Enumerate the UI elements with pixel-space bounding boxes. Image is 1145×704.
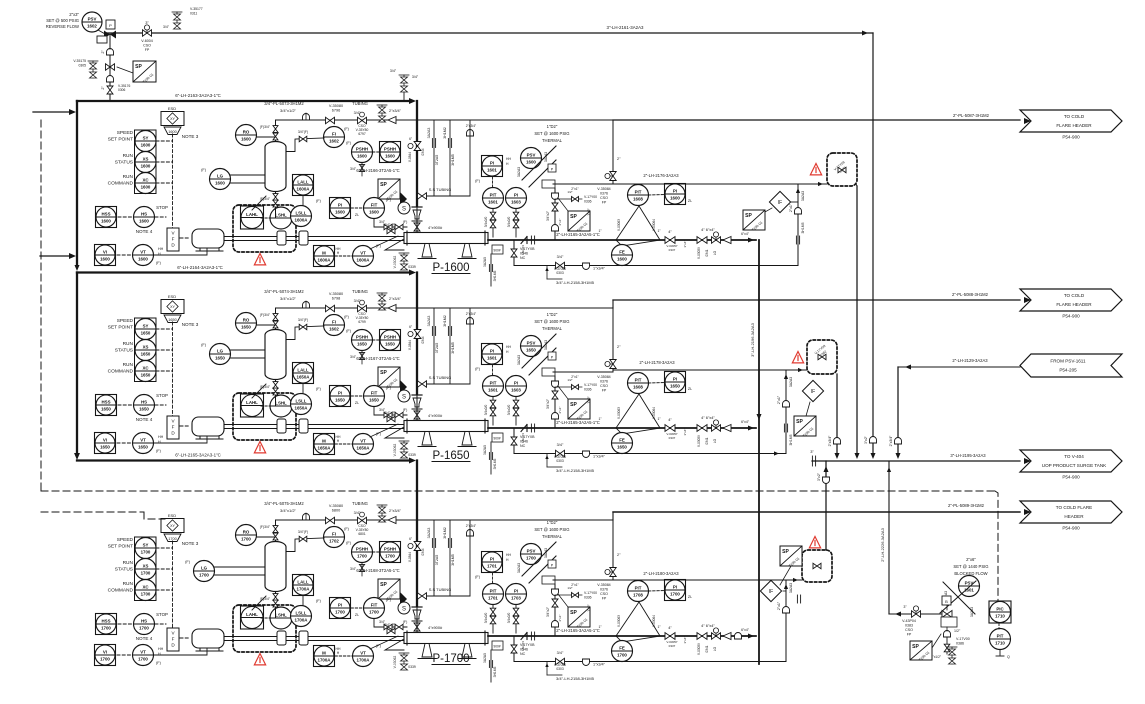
speed pickup SP (568, 399, 590, 421)
svg-text:1650: 1650 (139, 406, 149, 411)
svg-text:STATUS: STATUS (115, 348, 133, 354)
pressure indicator PI 1600 (330, 198, 351, 219)
svg-text:COMMAND: COMMAND (108, 369, 134, 375)
svg-text:NC: NC (520, 652, 526, 656)
svg-text:ZL: ZL (688, 199, 692, 203)
svg-text:ZL: ZL (688, 387, 692, 391)
svg-text:3A2A3: 3A2A3 (517, 355, 521, 365)
svg-text:(F): (F) (403, 220, 408, 224)
vent cluster top (172, 12, 182, 29)
svg-text:HEADER: HEADER (1064, 514, 1084, 519)
svg-text:XY: XY (170, 117, 175, 121)
svg-text:PIT: PIT (997, 633, 1004, 638)
svg-text:SET POINT: SET POINT (108, 325, 133, 331)
svg-text:1700: 1700 (100, 656, 110, 661)
svg-text:2"x1": 2"x1" (789, 203, 793, 212)
pump legs (422, 432, 432, 446)
train 2 spillback riser (836, 374, 838, 456)
svg-text:2"x3/4": 2"x3/4" (389, 109, 402, 113)
svg-text:IF: IF (778, 200, 782, 206)
flow transmitter FIT 1700 (364, 598, 385, 619)
svg-text:PSV: PSV (527, 548, 536, 553)
svg-text:P-1600: P-1600 (432, 262, 469, 274)
svg-text:3T2A5: 3T2A5 (435, 155, 439, 166)
svg-text:FE: FE (619, 437, 625, 442)
svg-text:1601: 1601 (487, 355, 497, 360)
svg-text:1/2x3/4: 1/2x3/4 (521, 433, 525, 443)
motor for pump P-1600 (192, 229, 224, 248)
SS tubing loop (433, 521, 435, 596)
FIT tap line (374, 219, 407, 228)
svg-text:HS: HS (141, 399, 147, 404)
black flag (400, 192, 407, 206)
discharge pipe 2 inch (488, 635, 756, 637)
controller SY/XS/XC 1700 stack (135, 537, 157, 601)
level gauge LG 1700 (194, 561, 215, 582)
svg-text:F: F (172, 425, 175, 430)
restriction orifice RO 1700 (236, 525, 257, 546)
pump train P-1650 control/instrument column (95, 289, 489, 458)
svg-text:2"-LH-2180-3A2A3: 2"-LH-2180-3A2A3 (643, 571, 679, 576)
instrument air dashed drop (40, 120, 42, 491)
svg-text:2"x1": 2"x1" (777, 601, 781, 610)
svg-text:6"-LH-2167-3T2A5-1"C: 6"-LH-2167-3T2A5-1"C (356, 356, 399, 361)
svg-text:3H1M5: 3H1M5 (801, 222, 805, 233)
reducer 2x3/4 (388, 517, 396, 524)
svg-text:6"-LH-2165-3A2A3-1"C: 6"-LH-2165-3A2A3-1"C (175, 453, 221, 458)
motor for pump P-1650 (192, 417, 224, 436)
pressure indicator PI 1603 (506, 376, 527, 397)
svg-text:3/4"-LH-2158-3H1M5: 3/4"-LH-2158-3H1M5 (556, 676, 595, 681)
svg-text:0303: 0303 (556, 459, 564, 463)
svg-text:V-03063: V-03063 (617, 407, 621, 419)
coupling guards (277, 631, 286, 645)
svg-text:6797: 6797 (358, 132, 366, 136)
VFD drive P-1700 (167, 628, 179, 651)
coupling guards (277, 419, 286, 433)
train 2 IF interlock (802, 380, 823, 401)
svg-text:SP: SP (796, 419, 803, 425)
vent valve cluster (377, 293, 387, 310)
svg-text:TO V-404: TO V-404 (1064, 454, 1084, 459)
svg-text:V-03064: V-03064 (652, 615, 656, 627)
tubing valve cso (358, 305, 367, 311)
svg-text:LALL: LALL (297, 579, 309, 584)
svg-text:3/4"-PL-5074-3H1M2: 3/4"-PL-5074-3H1M2 (264, 289, 304, 294)
svg-text:P54-205: P54-205 (1059, 368, 1077, 373)
reducer 2x3/4 (388, 305, 396, 312)
svg-text:3/4" (F): 3/4" (F) (384, 223, 396, 227)
svg-text:1650: 1650 (101, 406, 111, 411)
pressure controller PIC 1710 (989, 601, 1011, 623)
svg-text:4": 4" (668, 417, 672, 422)
flare riser valve V-35084 (612, 120, 614, 184)
svg-text:3/4": 3/4" (390, 69, 397, 73)
tubing valve cso (358, 117, 367, 123)
thermal relief line (553, 579, 613, 581)
tubing check valve (303, 514, 310, 521)
top flare line elbow down (862, 30, 868, 35)
svg-text:V-43P04: V-43P04 (902, 619, 916, 623)
svg-text:1600: 1600 (335, 209, 345, 214)
level gauge LG 1600 (210, 169, 231, 190)
PSV-1602 angle valve (104, 31, 116, 39)
monitor M 1600A (314, 246, 335, 267)
PSV inlet drop (554, 376, 556, 428)
svg-text:3/4": 3/4" (412, 75, 419, 79)
svg-text:VT: VT (360, 250, 366, 255)
svg-text:1650: 1650 (670, 383, 680, 388)
svg-text:PIT: PIT (490, 380, 497, 385)
VFD drive P-1600 (167, 228, 179, 251)
svg-text:LG: LG (201, 565, 208, 570)
svg-text:(F): (F) (156, 661, 162, 665)
black flag (400, 380, 407, 394)
svg-text:2"x3/4": 2"x3/4" (466, 524, 477, 528)
svg-text:0337: 0337 (669, 436, 676, 440)
svg-text:V-03063: V-03063 (617, 615, 621, 627)
svg-text:PI: PI (490, 348, 494, 353)
svg-text:1"x3/4": 1"x3/4" (593, 455, 606, 459)
tubing valve cso (358, 517, 367, 523)
svg-text:P-1700: P-1700 (432, 653, 469, 665)
svg-text:(F): (F) (156, 449, 162, 453)
svg-text:XC: XC (142, 365, 149, 370)
svg-text:1708: 1708 (633, 592, 643, 597)
flow transmitter PIT 1608 (628, 373, 649, 394)
discharge pipe 2 inch (488, 239, 756, 241)
svg-text:1700A: 1700A (297, 586, 311, 591)
svg-text:1650: 1650 (357, 341, 367, 346)
svg-text:V-03059: V-03059 (697, 643, 701, 655)
svg-text:3"x4": 3"x4" (683, 637, 687, 644)
pressure gauge PI 1601 (482, 344, 503, 365)
svg-text:1700: 1700 (168, 537, 176, 541)
svg-text:1"x3/4": 1"x3/4" (593, 267, 606, 271)
svg-text:VT: VT (360, 650, 366, 655)
pump casing P-1600 (404, 233, 488, 244)
svg-text:3/4x0/0: 3/4x0/0 (507, 405, 511, 416)
svg-text:NOTE 3: NOTE 3 (182, 541, 199, 546)
svg-text:1"D2": 1"D2" (547, 312, 558, 317)
svg-text:VT: VT (360, 438, 366, 443)
svg-text:PI: PI (514, 380, 518, 385)
svg-text:1700: 1700 (670, 591, 680, 596)
svg-text:S.S TUBING: S.S TUBING (429, 375, 452, 380)
train 3 SP box (780, 546, 802, 568)
vibration transmitter VT 1600 (133, 245, 154, 266)
svg-text:XY: XY (170, 524, 175, 528)
svg-text:H: H (158, 440, 161, 444)
svg-text:0339: 0339 (408, 665, 416, 669)
svg-text:3/4"(F): 3/4"(F) (298, 530, 308, 534)
train 1 left header riser (76, 101, 78, 266)
interlock E/SD 1650 (161, 294, 199, 327)
min-flow valve V-17YXB (513, 636, 515, 661)
svg-text:V-0844: V-0844 (408, 152, 412, 162)
svg-text:1602: 1602 (329, 326, 339, 331)
svg-text:3"x2": 3"x2" (864, 435, 868, 443)
svg-text:RUN: RUN (123, 581, 134, 587)
svg-text:XS: XS (143, 156, 149, 161)
svg-text:3H1M2: 3H1M2 (443, 315, 447, 327)
vibration transmitter VT 1650 (133, 433, 154, 454)
flare riser valve V-35084 (612, 516, 614, 580)
pressure transmitter PIT 1601 (483, 188, 504, 209)
svg-text:TUBING: TUBING (352, 289, 368, 294)
svg-text:3/4"x2": 3/4"x2" (546, 211, 550, 221)
level alarm LALL 1600A (293, 175, 314, 196)
svg-text:(F): (F) (386, 198, 392, 202)
svg-text:PIT: PIT (635, 189, 642, 194)
svg-text:LAHL: LAHL (246, 612, 258, 617)
svg-text:H: H (158, 652, 161, 656)
solenoid S (398, 602, 410, 614)
svg-text:NOTE 3: NOTE 3 (182, 134, 199, 139)
svg-text:(F): (F) (475, 179, 481, 183)
svg-text:2"-LH-2226-3A2A3: 2"-LH-2226-3A2A3 (880, 527, 885, 561)
svg-text:LALL: LALL (297, 367, 309, 372)
svg-text:PI: PI (673, 584, 677, 589)
svg-text:V-03062: V-03062 (393, 656, 397, 669)
pump train P-1700 control/instrument column (95, 501, 489, 670)
PSV inlet drop (554, 188, 556, 240)
pressure transmitter PIT 1601 (483, 376, 504, 397)
svg-text:PSHH: PSHH (384, 334, 396, 339)
svg-text:1602: 1602 (329, 138, 339, 143)
minimum flow line (514, 265, 613, 267)
svg-text:1608: 1608 (633, 384, 643, 389)
svg-text:(F): (F) (403, 408, 408, 412)
svg-text:0303: 0303 (556, 271, 564, 275)
svg-text:1700: 1700 (199, 572, 209, 577)
svg-text:PI: PI (673, 188, 677, 193)
svg-text:3/4" (F): 3/4" (F) (384, 623, 396, 627)
svg-text:1700: 1700 (141, 591, 151, 596)
svg-text:(F): (F) (201, 343, 207, 347)
svg-text:3/4"-PL-5075-3H1M2: 3/4"-PL-5075-3H1M2 (264, 501, 304, 506)
svg-text:FIT: FIT (371, 390, 378, 395)
svg-text:4"x900#: 4"x900# (428, 625, 443, 630)
svg-text:1608: 1608 (633, 196, 643, 201)
vibration transmitter VT 1650A (353, 434, 374, 455)
svg-text:M: M (322, 438, 326, 443)
train 1 minflow riser (797, 184, 799, 266)
svg-text:1700: 1700 (141, 570, 151, 575)
svg-text:1"x2": 1"x2" (587, 604, 591, 611)
svg-text:PSV: PSV (527, 152, 536, 157)
svg-text:SET @ 1600 PSIG: SET @ 1600 PSIG (534, 527, 569, 532)
svg-text:STOP: STOP (156, 205, 168, 210)
svg-text:FP: FP (602, 201, 607, 205)
svg-text:XS: XS (143, 344, 149, 349)
svg-text:2"-PL-5088-3H1M2: 2"-PL-5088-3H1M2 (952, 292, 989, 297)
discharge piping of P-1700 (475, 516, 756, 682)
svg-text:1600: 1600 (215, 180, 225, 185)
svg-text:V-35084: V-35084 (597, 375, 610, 379)
svg-text:6"-LH-2163-3A2A3-1"C: 6"-LH-2163-3A2A3-1"C (175, 93, 221, 98)
caution triangle (254, 654, 265, 665)
svg-text:(F): (F) (376, 244, 382, 248)
svg-text:1700: 1700 (385, 553, 395, 558)
suction strainer (385, 639, 404, 650)
svg-text:0311: 0311 (190, 12, 197, 16)
svg-text:NOTE 3: NOTE 3 (182, 322, 199, 327)
svg-text:1650: 1650 (617, 444, 627, 449)
monitor M 1700A (314, 646, 335, 667)
3/4 inch seal flush tubing line (276, 519, 471, 521)
svg-text:IF: IF (811, 389, 815, 395)
svg-text:1"x2": 1"x2" (587, 396, 591, 403)
svg-text:UOP PRODUCT SURGE TANK: UOP PRODUCT SURGE TANK (1042, 463, 1107, 468)
svg-text:(F): (F) (316, 199, 322, 203)
svg-text:1700: 1700 (139, 625, 149, 630)
svg-text:(F): (F) (475, 575, 481, 579)
svg-text:1600A: 1600A (297, 186, 311, 191)
svg-text:S: S (402, 207, 406, 213)
alarm PSHH 1650 (380, 330, 401, 351)
discharge gate/globe 6x4 (697, 425, 707, 432)
vendor package cloud boundary (233, 205, 296, 252)
svg-text:LAHL: LAHL (246, 212, 258, 217)
svg-text:HSS: HSS (101, 618, 110, 623)
vibration indicator VI 1700 (95, 645, 116, 666)
svg-text:HH: HH (506, 553, 511, 557)
svg-text:SET @ 1600 PSIG: SET @ 1600 PSIG (534, 131, 569, 136)
train 3 caution triangle (809, 537, 820, 548)
svg-text:SP: SP (782, 549, 789, 555)
svg-text:3/4x0/0: 3/4x0/0 (484, 613, 488, 624)
min-flow valve V-17YXB (513, 428, 515, 453)
svg-text:STATUS: STATUS (115, 160, 133, 166)
svg-text:NC: NC (520, 444, 526, 448)
svg-text:Q: Q (1007, 655, 1010, 659)
svg-text:PSHH: PSHH (384, 546, 396, 551)
long dashed signal header (41, 490, 995, 492)
svg-text:S: S (402, 395, 406, 401)
svg-text:HS: HS (141, 211, 147, 216)
flow transmitter FIT 1650 (364, 386, 385, 407)
instrument signal dashed lines (172, 322, 174, 420)
svg-text:3": 3" (145, 20, 149, 25)
discharge block valve 4in (665, 425, 675, 432)
level switch LSHL 1650 (270, 395, 292, 417)
svg-text:PSV: PSV (527, 340, 536, 345)
svg-text:VI: VI (103, 649, 107, 654)
level alarm LALL 1650A (293, 363, 314, 384)
svg-text:SP: SP (570, 610, 577, 616)
suction feed line with arrow (33, 111, 70, 113)
svg-text:LSHL: LSHL (275, 212, 287, 217)
svg-text:LO: LO (713, 438, 717, 443)
svg-text:XC: XC (142, 177, 149, 182)
svg-text:XS: XS (143, 563, 149, 568)
svg-text:1650: 1650 (215, 355, 225, 360)
svg-text:3A2A3: 3A2A3 (801, 191, 805, 201)
svg-text:SP: SP (570, 214, 577, 220)
train 2 caution triangle (792, 352, 803, 363)
speed probe SP box (378, 179, 400, 201)
train 1 suction vent tree (399, 75, 409, 92)
svg-text:STOP: STOP (156, 612, 168, 617)
svg-text:0336: 0336 (584, 200, 592, 204)
svg-text:1600: 1600 (101, 218, 111, 223)
flow indicator FI 1602 (324, 315, 345, 336)
svg-text:SP: SP (380, 582, 387, 588)
svg-text:6"x4": 6"x4" (741, 420, 750, 424)
train 1 SP box right (743, 210, 765, 232)
svg-text:SP: SP (380, 182, 387, 188)
svg-text:F: F (172, 237, 175, 242)
alarm PSHH 1600 (380, 142, 401, 163)
svg-text:0344: 0344 (421, 336, 425, 343)
svg-text:6"x4": 6"x4" (741, 628, 750, 632)
svg-text:3/4x0/0: 3/4x0/0 (507, 613, 511, 624)
svg-text:3H1M5: 3H1M5 (451, 154, 455, 166)
svg-text:1710: 1710 (995, 640, 1005, 645)
svg-text:0339: 0339 (408, 265, 416, 269)
solenoid S (398, 202, 410, 214)
speed pickup SP (568, 211, 590, 233)
svg-text:1700: 1700 (101, 625, 111, 630)
svg-text:6796: 6796 (332, 109, 340, 113)
train 1 suction drop bold (416, 101, 418, 206)
PSV-1601 block valve with actuator (942, 611, 952, 618)
svg-text:1"x2": 1"x2" (587, 208, 591, 215)
svg-text:CSO: CSO (600, 592, 608, 596)
svg-text:3T2A5: 3T2A5 (435, 555, 439, 566)
vendor package cloud boundary (233, 393, 296, 440)
svg-text:1600A: 1600A (357, 257, 371, 262)
svg-text:1700: 1700 (357, 553, 367, 558)
vibration transmitter VT 1700A (353, 646, 374, 667)
level switch LSLL 1650A (291, 394, 312, 415)
pump suction fittings (412, 206, 422, 208)
PSV inlet drop (554, 584, 556, 636)
svg-text:1700A: 1700A (318, 657, 332, 662)
svg-text:4" 6"x4": 4" 6"x4" (701, 415, 715, 420)
svg-text:SP: SP (745, 213, 752, 219)
svg-text:1/2x3/4: 1/2x3/4 (521, 641, 525, 651)
svg-text:PIT: PIT (490, 588, 497, 593)
svg-text:1650: 1650 (335, 397, 345, 402)
svg-text:1700: 1700 (141, 549, 151, 554)
thermal relief line (553, 183, 613, 185)
svg-text:(F): (F) (376, 432, 382, 436)
svg-text:PI: PI (514, 192, 518, 197)
block and bleed valves (492, 397, 494, 426)
svg-text:VI: VI (103, 249, 107, 254)
suction header valve V-0844 (414, 330, 421, 339)
vendor package cloud boundary (233, 605, 296, 652)
svg-text:RUN: RUN (123, 174, 134, 180)
svg-text:P54-900: P54-900 (1062, 314, 1080, 319)
svg-text:ESD: ESD (168, 106, 176, 111)
svg-text:3/4"-PL-5073-3H1M2: 3/4"-PL-5073-3H1M2 (264, 101, 304, 106)
pressure switch PSHH 1650 (352, 330, 373, 351)
svg-text:CSO: CSO (143, 44, 151, 48)
svg-text:1600: 1600 (139, 218, 149, 223)
train 1 IF interlock (769, 191, 790, 212)
svg-text:SP: SP (380, 370, 387, 376)
svg-text:3/4": 3/4" (557, 651, 564, 655)
svg-text:THERMAL: THERMAL (542, 326, 563, 331)
svg-text:1650: 1650 (385, 341, 395, 346)
svg-text:6799: 6799 (358, 320, 366, 324)
svg-text:3/4": 3/4" (557, 255, 564, 259)
train 3 minflow riser (785, 580, 787, 662)
svg-text:0341: 0341 (705, 437, 709, 444)
